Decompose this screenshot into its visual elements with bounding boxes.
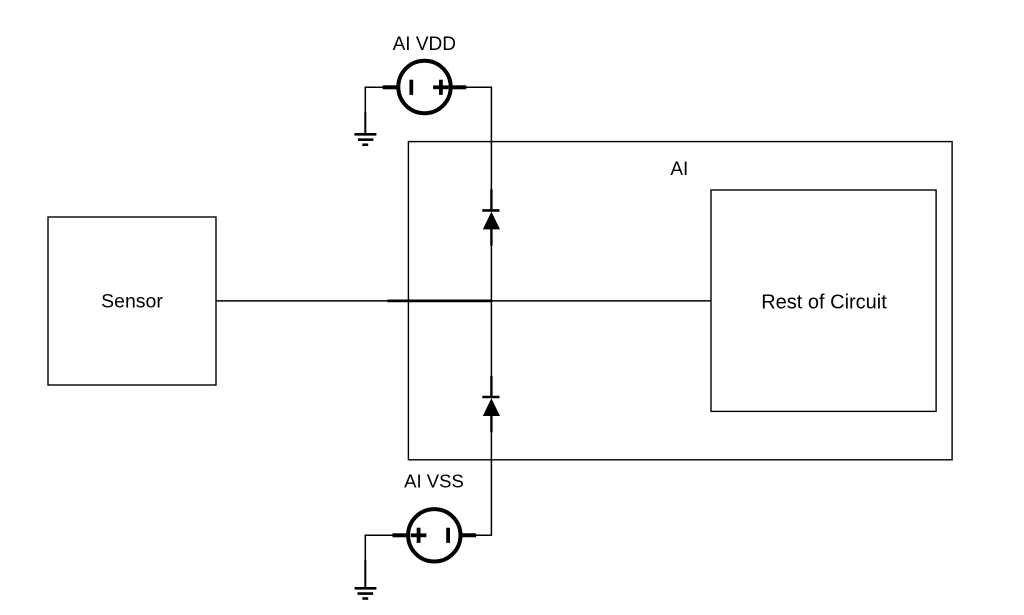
wire: D2 anode down to V2 minus terminal — [475, 432, 491, 536]
svg-text:AI: AI — [670, 159, 688, 180]
block: Rest of Circuit — [711, 190, 936, 411]
voltage source V1 (AI VDD), minus left / plus right — [383, 61, 467, 113]
ground (top) — [354, 112, 376, 145]
diode D1 (cathode up to AI VDD) — [482, 189, 499, 245]
wire: thick highlighted segment of node A between diodes — [387, 299, 492, 302]
wire: V2 positive terminal to bottom ground — [365, 535, 393, 587]
wire: D1 anode to node A and down to D2 cathode — [490, 245, 492, 377]
svg-text:AI VDD: AI VDD — [393, 34, 456, 55]
svg-text:Rest of Circuit: Rest of Circuit — [761, 292, 887, 314]
wire: V1 negative terminal to top ground — [365, 87, 383, 133]
diode D2 (cathode up to node A) — [482, 376, 499, 432]
wire: V1 positive terminal to diode D1 cathode — [466, 87, 491, 190]
svg-text:AI VSS: AI VSS — [404, 471, 464, 492]
block: Sensor — [48, 217, 216, 385]
svg-text:Sensor: Sensor — [101, 290, 163, 312]
voltage source V2 (AI VSS), plus left / minus right — [393, 509, 477, 561]
enclosure box AI — [408, 142, 952, 460]
wire: Sensor output to Rest of Circuit input (node A) — [216, 300, 711, 302]
ground (bottom) — [355, 560, 377, 599]
